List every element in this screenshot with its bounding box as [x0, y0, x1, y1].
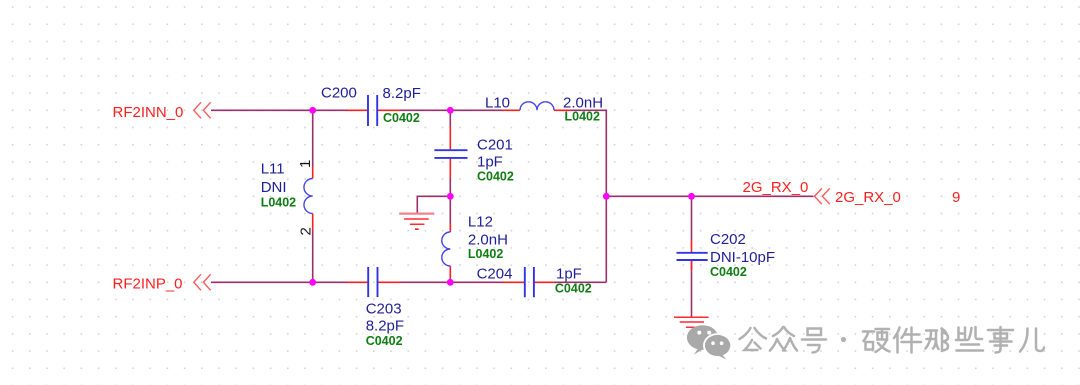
junction node C202 tap — [688, 193, 695, 200]
svg-text:1pF: 1pF — [556, 266, 582, 283]
svg-text:C204: C204 — [477, 266, 513, 283]
svg-text:DNI: DNI — [261, 179, 287, 196]
svg-text:L0402: L0402 — [565, 110, 600, 124]
capacitor C200 — [321, 85, 421, 126]
junction node top-mid — [447, 107, 454, 114]
junction node bottom-mid — [447, 279, 454, 286]
watermark text — [740, 327, 827, 353]
svg-text:C200: C200 — [321, 85, 357, 102]
wire left vertical lower — [312, 231, 314, 283]
capacitor C201 — [434, 126, 513, 184]
capacitor C202 — [677, 231, 776, 279]
capacitor C203 — [348, 267, 405, 348]
wire bottom rail mid — [400, 281, 503, 283]
svg-text:2G_RX_0: 2G_RX_0 — [743, 179, 809, 196]
wire ground branch — [417, 196, 450, 213]
inductor L12 — [442, 213, 508, 282]
port RF2INN_0 chevron — [194, 102, 211, 118]
svg-text:9: 9 — [952, 189, 960, 206]
capacitor C204 — [477, 266, 592, 298]
wire mid rail to output port — [606, 195, 813, 197]
wire bottom rail right — [554, 281, 607, 283]
svg-text:C0402: C0402 — [366, 334, 403, 348]
ground for C201 — [399, 214, 434, 230]
svg-text:L12: L12 — [468, 213, 493, 230]
svg-text:C203: C203 — [366, 301, 402, 318]
svg-text:2: 2 — [298, 227, 315, 235]
wire C201 upper stub — [449, 110, 451, 126]
wire bottom rail left — [211, 281, 348, 283]
svg-text:L0402: L0402 — [468, 247, 503, 261]
wire top rail left — [211, 109, 348, 111]
inductor L11 — [261, 161, 313, 231]
svg-text:RF2INN_0: RF2INN_0 — [113, 104, 184, 121]
inductor L10 — [485, 95, 603, 124]
svg-text:C201: C201 — [477, 136, 513, 153]
svg-text:C0402: C0402 — [383, 111, 420, 125]
svg-text:L0402: L0402 — [261, 195, 296, 209]
svg-text:C202: C202 — [710, 231, 746, 248]
wire top rail mid — [400, 109, 504, 111]
port 2G_RX_0 chevron — [815, 188, 830, 204]
junction node mid right — [603, 193, 610, 200]
junction node mid C201/L12 — [447, 193, 454, 200]
wire left vertical upper — [312, 110, 314, 166]
svg-text:C0402: C0402 — [710, 265, 747, 279]
svg-text:1: 1 — [297, 160, 314, 168]
svg-text:8.2pF: 8.2pF — [366, 318, 404, 335]
ground for C202 — [674, 317, 709, 332]
svg-text:8.2pF: 8.2pF — [383, 85, 421, 102]
watermark separator dot — [841, 337, 846, 342]
svg-text:L11: L11 — [261, 161, 285, 178]
junction node bottom-left — [309, 279, 316, 286]
svg-text:RF2INP_0: RF2INP_0 — [113, 276, 183, 293]
watermark wechat icon — [687, 325, 732, 359]
svg-text:2.0nH: 2.0nH — [468, 231, 508, 248]
svg-text:L10: L10 — [485, 95, 510, 112]
port RF2INP_0 chevron — [194, 274, 211, 290]
wire top rail right + right vertical — [571, 110, 606, 282]
junction node top-left — [309, 107, 316, 114]
wire C201 lower stub — [449, 178, 451, 196]
wire L12 upper stub — [449, 196, 451, 223]
svg-text:C0402: C0402 — [477, 170, 514, 184]
svg-text:C0402: C0402 — [555, 282, 592, 296]
svg-text:DNI-10pF: DNI-10pF — [710, 249, 775, 266]
svg-text:2G_RX_0: 2G_RX_0 — [835, 189, 901, 206]
svg-text:1pF: 1pF — [477, 153, 503, 170]
wire C202 branch — [691, 196, 693, 316]
